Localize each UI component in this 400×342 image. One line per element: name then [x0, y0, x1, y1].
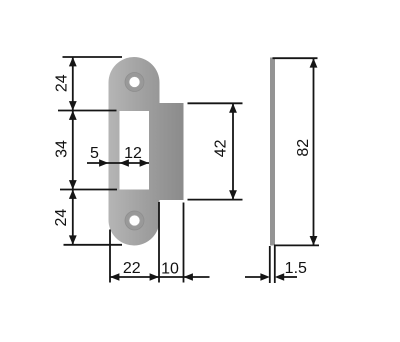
extension line below tab right edge: [183, 203, 185, 283]
svg-text:42: 42: [213, 139, 230, 157]
arrow right for 1.5 dim: [260, 273, 269, 280]
svg-text:24: 24: [53, 209, 70, 227]
arrow up at y=189.5: [69, 190, 77, 199]
arrow up for 42 dim: [229, 103, 237, 112]
side view plate (1.5 thick): [270, 58, 275, 246]
1.5 left extension line: [269, 246, 271, 283]
svg-text:82: 82: [295, 139, 312, 157]
arrow right for 5 dim: [99, 159, 108, 166]
arrow left for 12 dim: [120, 159, 129, 166]
extension line bottom of side view (82 dim): [274, 244, 319, 246]
extension line top of cutout (y=110.5): [58, 110, 117, 112]
arrow down at y=189.5 (34/24 boundary): [69, 180, 77, 189]
latch tab (right extension of front view): [150, 103, 184, 200]
arrow left outside for 10 dim: [184, 273, 193, 280]
arrow up at top of 24: [69, 57, 77, 66]
extension line bottom of plate (y=244.3): [64, 244, 123, 246]
arrow left for 22 dim: [110, 273, 119, 280]
arrow down at bottom of 24: [69, 235, 77, 244]
1.5 right leader line: [282, 276, 297, 278]
svg-text:24: 24: [54, 74, 71, 92]
strike plate front view body: [109, 57, 160, 246]
bottom screw hole: [125, 211, 144, 230]
extension line below plate left edge: [109, 230, 111, 283]
svg-text:10: 10: [161, 261, 179, 278]
5 and 12 dimension line: [87, 162, 149, 164]
rectangular cutout (latch opening): [120, 111, 150, 190]
svg-text:5: 5: [90, 145, 99, 162]
arrow up at y=110.5: [69, 111, 77, 120]
arrow left for 1.5 dim: [275, 273, 284, 280]
42 dimension line: [232, 103, 234, 199]
extension line top of plate (y=57): [63, 56, 123, 58]
svg-text:12: 12: [124, 145, 142, 162]
bottom dimension line 22 and 10: [110, 276, 210, 278]
svg-text:34: 34: [53, 140, 70, 158]
arrow down for 42 dim: [229, 190, 237, 199]
extension line bottom of tab (42 dim): [188, 199, 243, 201]
1.5 left leader line: [245, 276, 262, 278]
arrow down for 82 dim: [310, 236, 318, 245]
extension line top of side view (82 dim): [273, 57, 318, 59]
extension line bottom of cutout (y=189.5): [60, 189, 117, 191]
1.5 right extension line: [274, 246, 276, 283]
arrow up for 82 dim: [310, 58, 318, 67]
arrow right for 12 dim: [140, 159, 149, 166]
top screw hole: [125, 73, 144, 92]
left vertical dimension line: [72, 57, 74, 245]
arrow down at y=110.5 (24/34 boundary): [69, 101, 77, 110]
svg-text:22: 22: [123, 260, 141, 277]
82 dimension line: [313, 58, 315, 245]
arrow right for 22 dim: [150, 273, 159, 280]
svg-text:1.5: 1.5: [285, 260, 307, 277]
extension line below plate right edge: [158, 202, 160, 283]
extension line top of tab (42 dim): [188, 102, 243, 104]
